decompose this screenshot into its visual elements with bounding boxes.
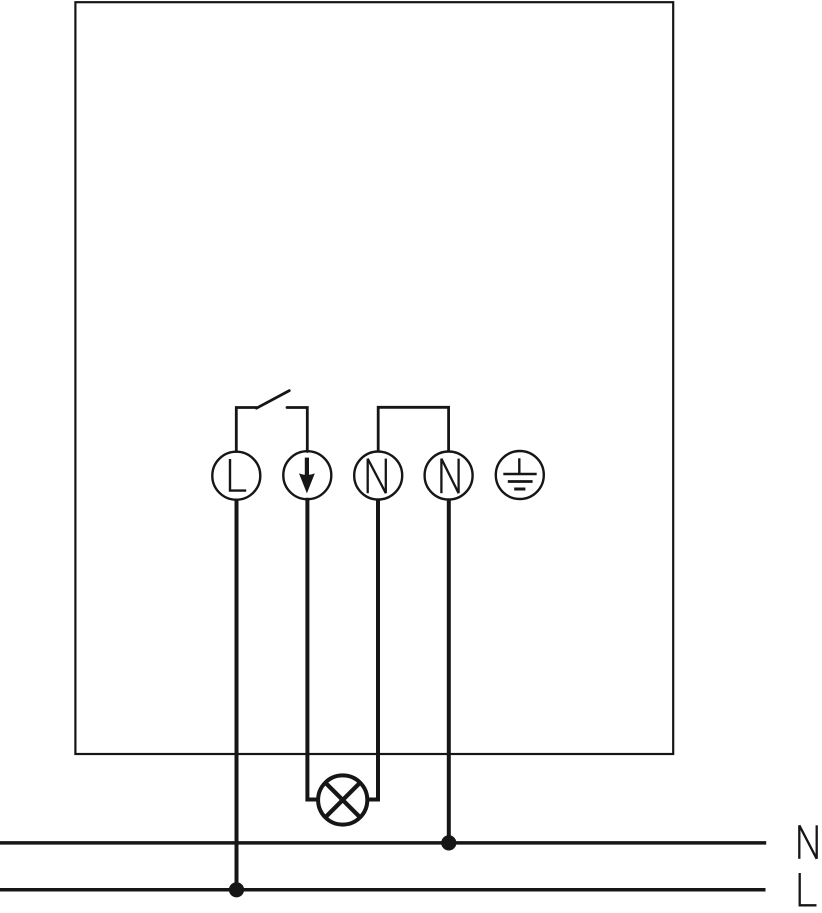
lamp E1 <box>318 775 367 824</box>
junction on L bus <box>229 882 244 897</box>
switch S1 (internal relay contact between L and output) <box>236 391 307 452</box>
N bus line <box>0 841 766 845</box>
wire: terminal L down to L bus <box>235 500 239 891</box>
ground symbol <box>503 458 536 489</box>
terminal switched-output (arrow) <box>283 451 331 499</box>
label N (N bus) <box>799 825 816 859</box>
device enclosure outline <box>75 2 673 754</box>
wire: second N terminal down to N bus <box>447 500 451 843</box>
wire: first N terminal down to lamp <box>367 500 378 800</box>
wire: N-N terminal bridge <box>378 407 448 451</box>
junction on N bus <box>441 835 456 850</box>
label L (L bus) <box>800 873 817 905</box>
terminal N (second) <box>425 452 473 500</box>
L bus line <box>0 888 766 892</box>
terminal L <box>212 452 260 500</box>
wire: switched output down to lamp <box>307 498 318 800</box>
terminal N (first) <box>354 452 402 500</box>
terminal PE (protective earth) <box>496 451 544 499</box>
